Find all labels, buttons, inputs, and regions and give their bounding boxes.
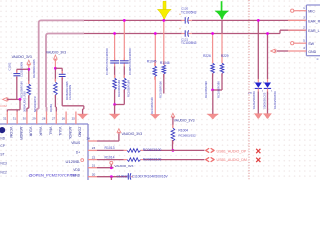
svg-text:AGNOL: AGNOL — [68, 127, 72, 140]
svg-text:20: 20 — [92, 172, 96, 176]
svg-text:C1005X7R104K500: C1005X7R104K500 — [128, 48, 132, 75]
svg-text:4: 4 — [303, 46, 305, 50]
svg-text:22: 22 — [92, 155, 96, 159]
svg-text:R229: R229 — [221, 54, 229, 58]
svg-text:32: 32 — [3, 116, 7, 120]
svg-text:R1004: R1004 — [178, 128, 188, 132]
svg-text:NC2: NC2 — [0, 170, 7, 174]
svg-text:VouR: VouR — [39, 127, 43, 136]
svg-text:C1100X7R104K500/16V: C1100X7R104K500/16V — [132, 174, 169, 178]
svg-text:24: 24 — [86, 137, 90, 141]
svg-text:SW: SW — [308, 42, 314, 46]
svg-text:GND: GND — [308, 50, 316, 54]
svg-text:RC0603/152: RC0603/152 — [178, 134, 196, 138]
svg-text:D+: D+ — [76, 151, 80, 155]
svg-text:VAUDIO_3V3: VAUDIO_3V3 — [174, 119, 195, 123]
svg-text:R226: R226 — [203, 54, 211, 58]
svg-text:R1046: R1046 — [160, 61, 170, 65]
svg-text:V1UR: V1UR — [29, 127, 33, 137]
svg-text:NC3: NC3 — [0, 161, 7, 165]
svg-text:C10018: C10018 — [117, 174, 129, 178]
svg-text:V1UL: V1UL — [58, 127, 62, 136]
svg-text:23: 23 — [92, 146, 96, 150]
svg-text:EAR_R: EAR_R — [308, 19, 320, 23]
svg-text:EAR_L: EAR_L — [308, 29, 319, 33]
svg-text:ST: ST — [0, 153, 4, 157]
svg-text:ND: ND — [0, 136, 5, 140]
svg-text:3: 3 — [303, 16, 305, 20]
svg-text:31: 31 — [13, 116, 17, 120]
svg-text:AGNDR: AGNDR — [19, 127, 23, 141]
svg-text:VCOM: VCOM — [9, 127, 13, 138]
svg-text:COM: COM — [0, 104, 7, 108]
svg-text:21: 21 — [92, 163, 96, 167]
svg-text:VAUDIO_3V3: VAUDIO_3V3 — [122, 132, 143, 136]
svg-text:C121: C121 — [181, 37, 189, 41]
svg-text:ZGND: ZGND — [78, 127, 82, 138]
svg-text:29: 29 — [32, 116, 36, 120]
svg-text:5: 5 — [303, 38, 305, 42]
svg-text:VAUDIO_3V3: VAUDIO_3V3 — [12, 55, 32, 59]
svg-text:VBUS: VBUS — [71, 141, 81, 145]
svg-text:C1005X7R104K500: C1005X7R104K500 — [105, 48, 109, 75]
svg-text:⊕: ⊕ — [316, 57, 319, 61]
svg-text:27: 27 — [52, 116, 56, 120]
svg-text:U1209: U1209 — [66, 159, 79, 164]
svg-text:C120: C120 — [181, 7, 189, 11]
svg-text:R1013: R1013 — [105, 146, 115, 150]
svg-text:2: 2 — [303, 25, 305, 29]
svg-text:1: 1 — [303, 6, 305, 10]
svg-text:TC1005N3: TC1005N3 — [181, 11, 197, 15]
svg-text:@OPEN_PCM2707CP/TR: @OPEN_PCM2707CP/TR — [29, 173, 77, 178]
svg-text:R1014: R1014 — [105, 155, 115, 159]
svg-text:30: 30 — [23, 116, 27, 120]
svg-text:USB1_AUDIO_DM: USB1_AUDIO_DM — [217, 158, 247, 162]
svg-text:MIC: MIC — [308, 10, 315, 14]
svg-text:CP: CP — [0, 144, 4, 148]
svg-text:25: 25 — [72, 116, 76, 120]
svg-text:RC0603/100: RC0603/100 — [143, 157, 162, 161]
svg-text:VDD: VDD — [73, 168, 81, 172]
svg-text:+: + — [179, 13, 181, 17]
svg-text:TC1005N3: TC1005N3 — [181, 41, 197, 45]
svg-text:R1045: R1045 — [147, 59, 157, 63]
svg-text:28: 28 — [42, 116, 46, 120]
svg-text:26: 26 — [62, 116, 66, 120]
svg-text:USB1_AUDIO_DP: USB1_AUDIO_DP — [217, 150, 247, 154]
svg-text:VAUDIO_3V3: VAUDIO_3V3 — [115, 164, 134, 168]
svg-text:VAUDIO_3V3: VAUDIO_3V3 — [46, 51, 66, 55]
svg-text:+: + — [179, 27, 181, 31]
svg-text:RC0603/100: RC0603/100 — [143, 148, 162, 152]
svg-text:VbuL: VbuL — [48, 127, 52, 136]
